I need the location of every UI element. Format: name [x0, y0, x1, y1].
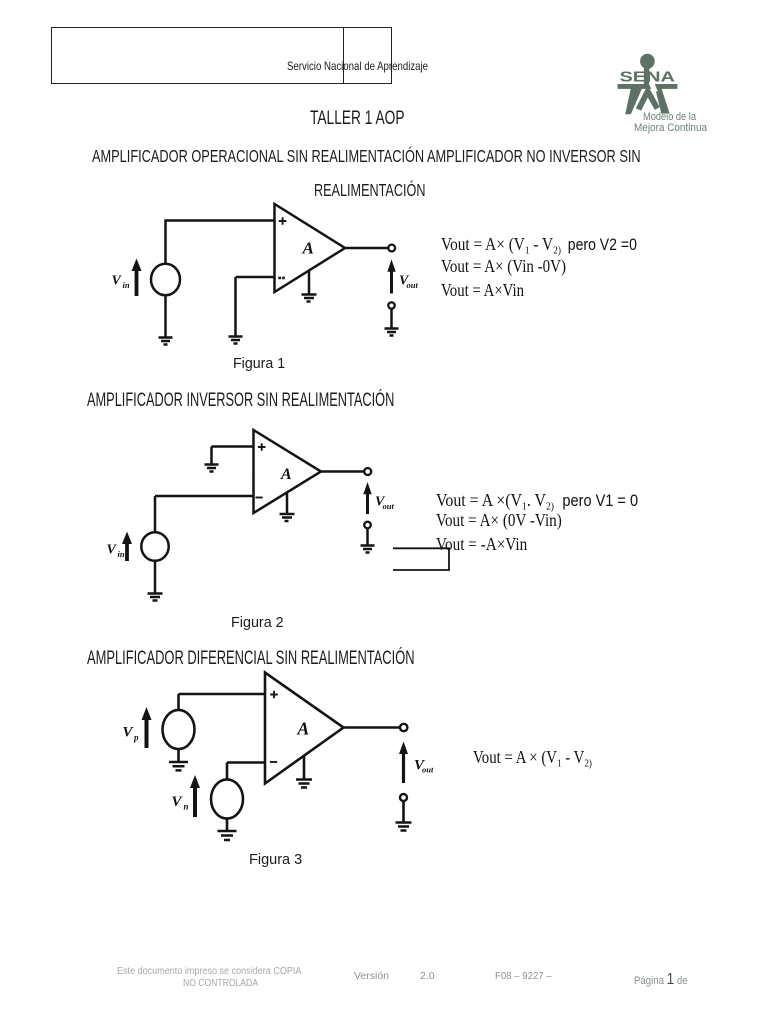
- svg-text:V: V: [123, 725, 135, 741]
- svg-text:out: out: [422, 765, 434, 775]
- svg-text:n: n: [184, 802, 189, 812]
- svg-text:V: V: [172, 794, 184, 810]
- svg-text:p: p: [133, 733, 139, 743]
- svg-text:V: V: [107, 543, 118, 558]
- svg-text:out: out: [407, 280, 419, 290]
- svg-text:SENA: SENA: [620, 69, 676, 85]
- svg-text:A: A: [297, 719, 310, 739]
- svg-text:V: V: [112, 274, 123, 289]
- svg-text:in: in: [123, 280, 130, 290]
- svg-text:in: in: [118, 549, 125, 559]
- svg-text:out: out: [383, 501, 395, 511]
- svg-text:A: A: [302, 239, 314, 258]
- svg-text:A: A: [280, 466, 292, 483]
